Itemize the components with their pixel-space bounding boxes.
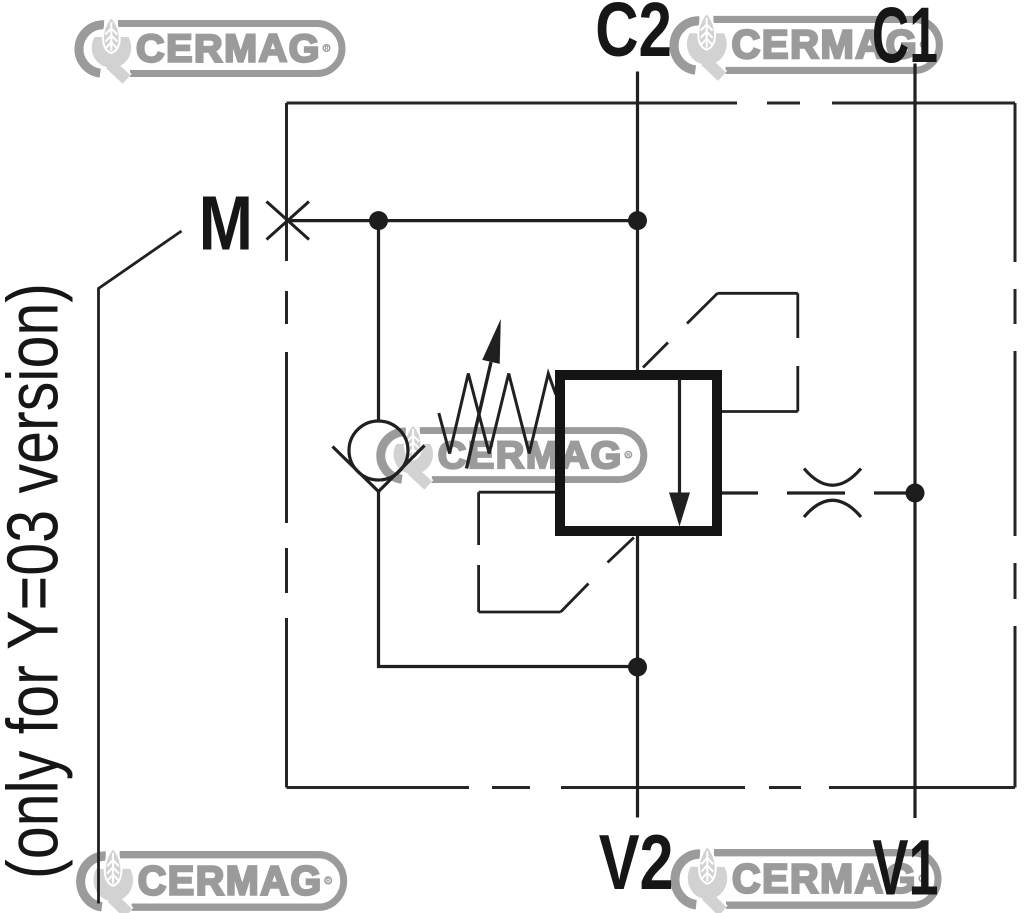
pilot line lower diagonal dashes [561, 538, 634, 613]
node dot M-branch [369, 211, 388, 230]
pilot line lower horizontal 2 [479, 611, 561, 614]
valve internal arrow head [669, 493, 690, 527]
watermark logo bottom-right [675, 847, 938, 911]
spring [439, 374, 556, 454]
enclosure border left (dash-dot) [285, 103, 288, 788]
enclosure border bottom (dash-dot) [287, 786, 1016, 789]
watermark logo top-left [79, 19, 342, 80]
svg-text:C1: C1 [872, 0, 938, 80]
pilot line upper vertical dashes [796, 293, 799, 411]
wire C2 upper [636, 72, 639, 371]
svg-text:C2: C2 [595, 0, 672, 73]
restrictor line dashed [722, 491, 915, 494]
watermark logo bottom-left [81, 849, 344, 913]
check valve V0 circle [349, 421, 408, 480]
svg-text:M: M [199, 181, 253, 266]
valve body U1 [560, 375, 717, 531]
leader line to note [99, 231, 182, 904]
wire C2 lower [636, 536, 639, 818]
wire M branch vertical [377, 221, 380, 421]
pilot line upper diagonal dashes [643, 293, 718, 367]
node dot V1 [906, 484, 925, 503]
wire M horizontal [288, 219, 638, 222]
adjustment arrow shaft [467, 362, 492, 469]
pilot line upper bottom horizontal [722, 410, 798, 413]
svg-text:V2: V2 [599, 819, 674, 906]
port M closed symbol X [267, 202, 310, 240]
wire C1-V1 [913, 64, 916, 819]
svg-text:V1: V1 [872, 824, 938, 911]
watermark logo center [381, 426, 644, 486]
node dot C2 upper [628, 211, 647, 230]
pilot line upper top horizontal [718, 292, 798, 295]
enclosure border top (dash-dot) [287, 102, 1016, 105]
adjustment arrow head [482, 319, 501, 364]
svg-text:(only for Y=03 version): (only for Y=03 version) [0, 283, 74, 879]
node dot C2 lower [628, 658, 647, 677]
enclosure border right (dash-dot) [1014, 103, 1017, 788]
watermark logo top-right [674, 14, 939, 76]
valve internal flow line [678, 379, 681, 507]
check valve V0 seat [333, 446, 425, 492]
wire check valve to bottom node [379, 492, 638, 667]
pilot line lower vertical dashes [477, 492, 480, 612]
restrictor orifice arcs [804, 469, 861, 518]
pilot line lower horizontal 1 [479, 491, 556, 494]
